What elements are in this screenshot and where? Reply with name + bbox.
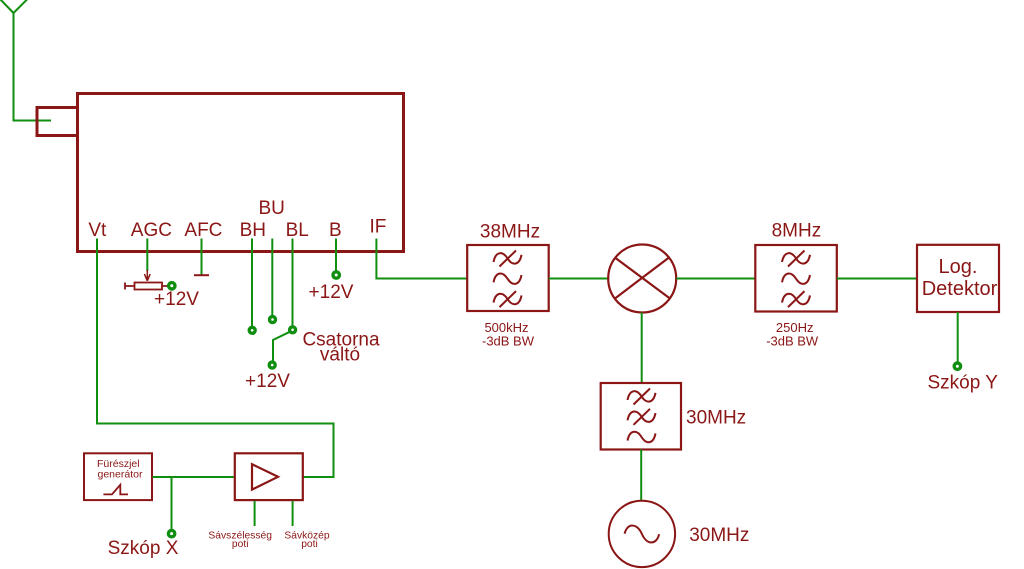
node BU <box>270 317 276 323</box>
wire AFC pin stub <box>201 239 203 276</box>
node Szkop X <box>168 530 174 536</box>
log detector box <box>917 245 999 312</box>
svg-text:IF: IF <box>369 217 386 238</box>
svg-text:AFC: AFC <box>184 220 222 241</box>
wire antenna to tuner input <box>13 120 52 122</box>
svg-text:Vt: Vt <box>88 220 107 241</box>
oscillator G1 30MHz <box>609 501 675 567</box>
F3 wave middle (crossed) <box>628 409 656 425</box>
wire log detector to scope Y <box>957 312 959 362</box>
svg-text:8MHz: 8MHz <box>772 221 822 242</box>
wire BU pin stub <box>271 239 273 316</box>
node +12V at potentiometer <box>169 283 175 289</box>
svg-text:38MHz: 38MHz <box>480 222 540 243</box>
F2 wave bottom (crossed) <box>782 291 810 307</box>
wire F3 to oscillator <box>640 450 642 502</box>
svg-text:poti: poti <box>232 539 249 550</box>
mixer U1 <box>608 245 676 313</box>
F1 wave top (crossed) <box>494 251 522 267</box>
F2 wave top (crossed) <box>782 251 810 267</box>
AGC wiper arrow <box>144 270 150 281</box>
svg-text:Detektor: Detektor <box>922 278 998 300</box>
wire AGC pin stub <box>146 239 148 272</box>
node B +12V <box>333 272 339 278</box>
svg-text:-3dB BW: -3dB BW <box>482 333 535 348</box>
wire IF to 38MHz filter <box>376 239 467 279</box>
svg-text:30MHz: 30MHz <box>689 525 749 546</box>
sweep amplifier box <box>235 453 303 500</box>
svg-text:+12V: +12V <box>154 289 199 310</box>
antenna <box>0 0 28 121</box>
filter F2 8MHz box <box>755 245 837 312</box>
svg-text:Log.: Log. <box>939 256 978 278</box>
svg-text:BU: BU <box>258 198 284 219</box>
filter F1 38MHz box <box>467 245 549 311</box>
wire junction to scope X <box>171 477 173 530</box>
svg-text:Szkóp Y: Szkóp Y <box>927 372 998 393</box>
wire Vt net (to sweep amp output) <box>97 239 334 478</box>
F1 wave bottom (crossed) <box>494 291 522 307</box>
sawtooth waveform symbol <box>103 485 128 495</box>
antenna connector box <box>37 108 78 136</box>
wire generator to amp <box>153 476 236 478</box>
svg-text:-3dB BW: -3dB BW <box>766 334 819 349</box>
svg-text:poti: poti <box>301 539 318 550</box>
F2 wave middle <box>782 273 810 283</box>
svg-text:BH: BH <box>240 220 266 241</box>
tuner box <box>78 94 404 252</box>
wire BH pin stub <box>251 239 253 327</box>
svg-text:+12V: +12V <box>245 371 290 392</box>
svg-text:BL: BL <box>286 220 309 241</box>
svg-text:+12V: +12V <box>309 282 354 303</box>
svg-text:B: B <box>329 220 342 241</box>
AFC open terminal bar <box>194 274 209 276</box>
wire amp trimmer pin 2 <box>292 501 294 526</box>
amplifier triangle <box>252 464 278 489</box>
svg-text:30MHz: 30MHz <box>686 408 746 429</box>
svg-text:AGC: AGC <box>131 220 172 241</box>
F1 wave middle <box>494 273 522 283</box>
F3 wave bottom <box>628 432 656 442</box>
switch lever wire <box>273 332 290 361</box>
wire amp trimmer pin 1 <box>254 501 256 526</box>
potentiometer body <box>125 283 169 290</box>
wire mixer to 8MHz filter <box>676 278 755 280</box>
node switch common <box>269 362 275 368</box>
wire F2 to log detector <box>837 278 917 280</box>
node Szkop Y <box>954 363 960 369</box>
wire mixer to 30MHz filter <box>641 313 643 384</box>
wire F1 to mixer <box>549 278 609 280</box>
svg-text:Szkóp X: Szkóp X <box>108 538 179 559</box>
svg-text:generátor: generátor <box>98 469 143 481</box>
node BL <box>290 327 296 333</box>
node BH <box>249 327 255 333</box>
filter F3 30MHz box <box>601 383 681 450</box>
sawtooth generator box <box>84 453 152 500</box>
wire BL pin stub <box>292 239 294 327</box>
F3 wave top (crossed) <box>628 389 656 405</box>
wire B pin stub <box>335 239 337 272</box>
svg-text:váltó: váltó <box>320 344 360 365</box>
